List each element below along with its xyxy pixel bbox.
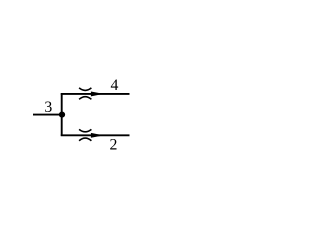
svg-text:4: 4: [111, 77, 119, 94]
wire bottom branch to port 2: [61, 134, 130, 136]
svg-text:3: 3: [44, 99, 52, 116]
restriction (throttle) lower arc, top branch: [79, 97, 91, 100]
svg-text:2: 2: [110, 136, 118, 153]
flow direction arrow, bottom branch: [91, 133, 104, 138]
flow direction arrow, top branch: [91, 91, 104, 96]
restriction (throttle) upper arc, top branch: [79, 88, 91, 91]
wire vertical branch trunk: [61, 93, 63, 135]
wire port 3 (left horizontal wire): [33, 114, 63, 116]
junction node (solder dot): [59, 112, 65, 118]
restriction (throttle) upper arc, bottom branch: [79, 129, 91, 132]
restriction (throttle) lower arc, bottom branch: [79, 138, 91, 141]
wire top branch to port 4: [61, 93, 130, 95]
